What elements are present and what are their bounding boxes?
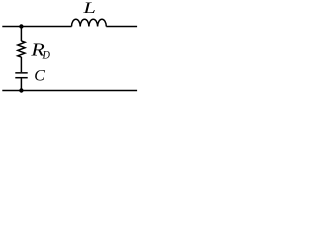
wire: shunt branch upper segment [20, 27, 22, 42]
svg-text:C: C [34, 68, 45, 85]
node: top junction dot [19, 24, 23, 28]
wire: segment between resistor and capacitor [20, 57, 22, 72]
wire: top rail left segment [2, 26, 71, 28]
capacitor C top plate [15, 72, 27, 74]
inductor L [72, 19, 107, 26]
svg-text:L: L [82, 0, 96, 17]
wire: top rail right segment [106, 26, 137, 28]
node: bottom junction dot [19, 88, 23, 92]
capacitor C bottom plate [15, 77, 27, 79]
wire: shunt branch lower segment [20, 78, 22, 90]
resistor RD (zigzag) [18, 41, 25, 57]
wire: bottom rail [2, 90, 137, 92]
svg-text:D: D [42, 48, 51, 62]
